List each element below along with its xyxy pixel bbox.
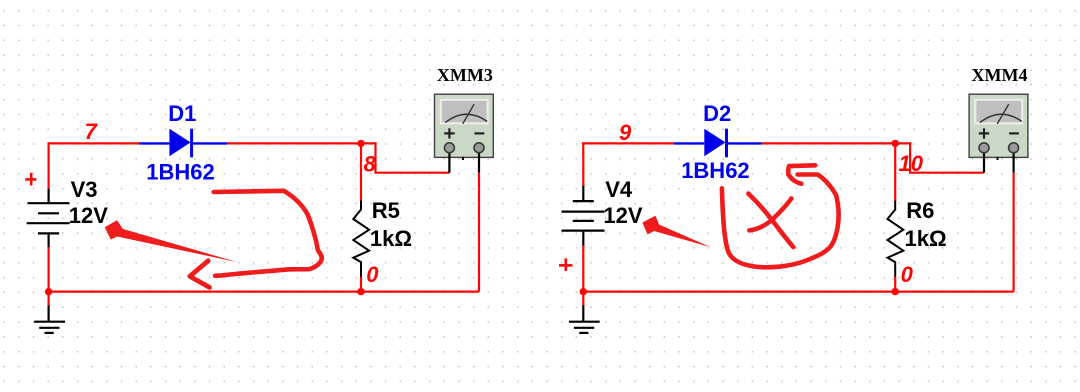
wire left vertical below battery V4 <box>582 245 584 307</box>
junction node 10 <box>892 140 899 147</box>
svg-text:0: 0 <box>366 262 379 287</box>
wire top horizontal diode to node 8 <box>227 142 377 144</box>
wire top horizontal diode to node 10 <box>762 142 912 144</box>
meter needle <box>463 104 474 124</box>
junction resistor-bottom <box>357 288 364 295</box>
junction battery V4-ground <box>580 288 587 295</box>
svg-text:1BH62: 1BH62 <box>146 160 214 185</box>
svg-text:10: 10 <box>899 151 924 176</box>
svg-text:D1: D1 <box>168 101 196 126</box>
svg-text:1kΩ: 1kΩ <box>905 226 947 251</box>
wire top-left horizontal (net 9) <box>582 142 674 144</box>
svg-text:1BH62: 1BH62 <box>681 158 749 183</box>
svg-text:R5: R5 <box>372 198 400 223</box>
annotation: left filled arrow toward V3 <box>105 220 238 262</box>
wire right vertical from meter minus lead <box>1012 173 1014 292</box>
minus terminal <box>474 143 484 153</box>
junction battery-ground <box>45 288 52 295</box>
lead from plus terminal (black) <box>448 150 450 173</box>
lead from plus terminal (black, XMM4) <box>983 150 985 173</box>
plus marking <box>444 128 454 138</box>
svg-text:R6: R6 <box>906 198 934 223</box>
multimeter XMM3 <box>435 94 494 173</box>
ground left <box>34 306 65 333</box>
svg-text:D2: D2 <box>703 101 731 126</box>
battery V4 (reversed) <box>562 186 605 245</box>
plus marking (XMM4) <box>979 128 989 138</box>
svg-text:V3: V3 <box>71 177 98 202</box>
battery V3 plus sign <box>25 173 36 186</box>
junction node 8 <box>357 140 364 147</box>
battery V3 <box>27 189 70 247</box>
battery V4 plus sign <box>559 258 573 271</box>
wire vertical below resistor R6 <box>894 276 896 291</box>
annotation: right filled arrow toward V4 <box>642 216 710 248</box>
wire bottom horizontal right (net 0) <box>582 291 1013 293</box>
svg-text:12V: 12V <box>603 203 642 228</box>
svg-text:1kΩ: 1kΩ <box>370 226 412 251</box>
wire left vertical below battery <box>47 247 49 307</box>
annotation: left arrowhead chevron <box>190 261 210 288</box>
meter bottom notch (XMM3) <box>462 157 464 160</box>
meter bottom notch (XMM4) <box>997 157 999 160</box>
svg-text:8: 8 <box>364 152 377 177</box>
wire elbow node10 down to meter + lead <box>910 142 984 172</box>
plus terminal (XMM4) <box>979 143 989 153</box>
minus marking <box>475 132 485 134</box>
annotation: right freehand loop circle <box>722 175 839 268</box>
wire vertical below resistor R5 <box>360 276 362 291</box>
meter arc <box>445 114 487 122</box>
annotation: X stroke NW-SE <box>748 194 793 248</box>
wire right vertical from meter minus lead <box>478 173 480 292</box>
wire bottom horizontal (net 0) <box>48 291 480 293</box>
lead from minus terminal (black) <box>478 150 480 173</box>
minus terminal (XMM4) <box>1009 143 1019 153</box>
svg-text:12V: 12V <box>69 203 108 228</box>
annotation: left freehand loop line <box>214 191 322 276</box>
diode D1 <box>139 129 227 158</box>
junction resistor R6-bottom <box>892 288 899 295</box>
annotation: right loop hook arrowhead <box>788 165 815 183</box>
meter needle (XMM4) <box>997 104 1008 124</box>
minus marking (XMM4) <box>1009 132 1019 134</box>
meter arc (XMM4) <box>980 114 1022 122</box>
wire left vertical above battery V4 <box>582 142 584 187</box>
wire top-left horizontal (net 7) <box>48 142 140 144</box>
lead from minus terminal (black, XMM4) <box>1012 150 1014 173</box>
wire left vertical above battery <box>47 142 49 189</box>
resistor R6 <box>888 201 904 277</box>
svg-text:0: 0 <box>901 262 914 287</box>
plus terminal <box>444 143 454 153</box>
ground right <box>569 306 600 333</box>
resistor R5 <box>353 201 369 277</box>
wire vertical above resistor R6 <box>894 143 896 201</box>
svg-text:XMM4: XMM4 <box>972 65 1028 85</box>
multimeter XMM4 <box>969 94 1028 173</box>
annotation: X stroke NE-SW <box>749 198 791 230</box>
svg-text:XMM3: XMM3 <box>437 65 493 85</box>
wire elbow node8 down to meter + lead <box>376 142 450 172</box>
wire vertical above resistor R5 <box>360 143 362 201</box>
svg-text:V4: V4 <box>605 177 633 202</box>
diode D2 <box>674 129 762 158</box>
svg-text:7: 7 <box>85 119 99 144</box>
svg-text:9: 9 <box>619 120 632 145</box>
